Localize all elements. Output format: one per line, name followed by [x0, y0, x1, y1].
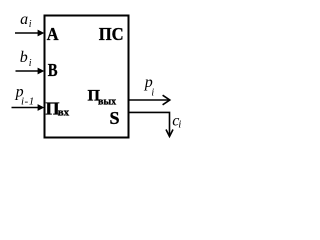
svg-text:i: i	[29, 19, 32, 30]
arrowhead p_i (open)	[163, 95, 170, 105]
svg-text:a: a	[20, 11, 28, 28]
svg-text:b: b	[20, 49, 28, 66]
arrowhead p_i-1	[38, 104, 45, 111]
wire a_i	[15, 32, 39, 34]
svg-text:Пвых: Пвых	[88, 88, 117, 108]
full adder block ПС	[45, 16, 129, 138]
svg-text:i-1: i-1	[21, 95, 35, 107]
arrowhead c_i (open)	[166, 130, 173, 137]
wire p_i output	[130, 99, 170, 101]
svg-text:А: А	[47, 24, 59, 44]
wire p_i-1	[12, 107, 39, 109]
arrowhead a_i	[38, 30, 45, 37]
svg-text:В: В	[48, 60, 58, 80]
svg-text:Пвх: Пвх	[46, 99, 70, 119]
svg-text:i: i	[178, 119, 181, 131]
svg-text:ПС: ПС	[99, 24, 124, 44]
svg-text:i: i	[29, 58, 32, 69]
svg-text:S: S	[110, 108, 120, 128]
arrowhead b_i	[38, 68, 45, 75]
wire c_i output	[130, 112, 170, 135]
svg-text:i: i	[151, 88, 154, 99]
wire b_i	[16, 70, 39, 72]
